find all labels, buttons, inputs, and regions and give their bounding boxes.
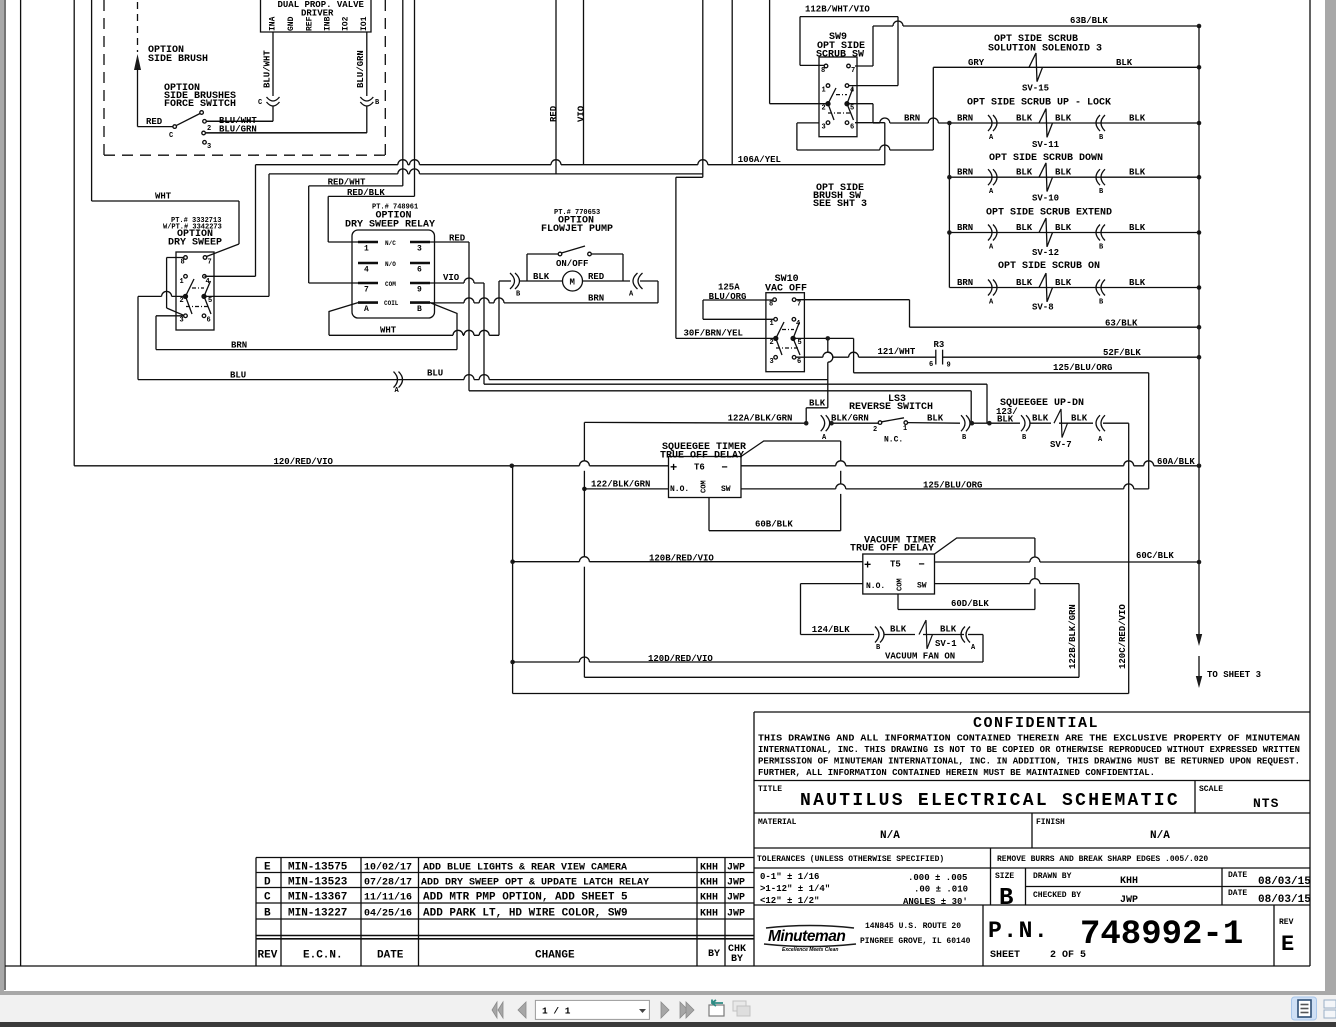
svg-text:BLK: BLK [1016,223,1033,233]
svg-text:B: B [876,644,881,652]
svg-text:SOLUTION SOLENOID 3: SOLUTION SOLENOID 3 [988,44,1102,55]
svg-text:COM: COM [897,578,905,591]
svg-text:BLU/GRN: BLU/GRN [219,125,257,135]
svg-text:FINISH: FINISH [1036,818,1065,827]
svg-text:NTS: NTS [1253,796,1279,811]
svg-text:SV-8: SV-8 [1032,303,1054,313]
svg-text:DRY SWEEP RELAY: DRY SWEEP RELAY [345,220,435,231]
svg-text:ADD BLUE LIGHTS & REAR VIEW CA: ADD BLUE LIGHTS & REAR VIEW CAMERA [423,863,627,874]
svg-text:120C/RED/VIO: 120C/RED/VIO [1118,604,1128,669]
svg-text:BLU/ORG: BLU/ORG [709,292,747,302]
svg-text:B: B [999,885,1013,912]
svg-text:B: B [1099,188,1104,196]
svg-text:5: 5 [798,339,802,347]
svg-text:WHT: WHT [155,192,172,202]
svg-text:OPT SIDE SCRUB DOWN: OPT SIDE SCRUB DOWN [989,153,1103,164]
svg-text:BLK: BLK [1055,223,1072,233]
svg-text:C: C [169,132,173,140]
svg-text:N/A: N/A [1150,830,1170,842]
svg-text:SV-15: SV-15 [1022,84,1049,94]
svg-text:BLK: BLK [1129,223,1146,233]
svg-text:30F/BRN/YEL: 30F/BRN/YEL [684,329,743,339]
svg-text:SEE SHT 3: SEE SHT 3 [813,199,867,210]
svg-text:ON/OFF: ON/OFF [556,259,588,269]
svg-text:<12" ± 1/2": <12" ± 1/2" [760,896,819,906]
svg-text:125A: 125A [718,283,740,293]
svg-text:PINGREE GROVE, IL 60140: PINGREE GROVE, IL 60140 [860,937,971,946]
svg-text:BLK: BLK [809,399,826,409]
svg-text:60B/BLK: 60B/BLK [755,520,793,530]
svg-text:A: A [971,644,976,652]
svg-text:RED: RED [449,234,466,244]
svg-text:122A/BLK/GRN: 122A/BLK/GRN [728,414,793,424]
svg-text:DATE: DATE [1228,889,1247,898]
svg-text:+: + [670,461,677,475]
svg-text:REVERSE SWITCH: REVERSE SWITCH [849,402,933,413]
svg-text:60D/BLK: 60D/BLK [951,599,989,609]
svg-text:B: B [962,434,967,442]
svg-text:ADD PARK LT, HD WIRE COLOR, SW: ADD PARK LT, HD WIRE COLOR, SW9 [423,908,628,920]
svg-text:C: C [258,99,262,107]
svg-text:SIZE: SIZE [995,872,1014,881]
svg-text:FORCE SWITCH: FORCE SWITCH [164,99,236,110]
svg-text:BLK: BLK [890,625,907,635]
svg-text:TOLERANCES (UNLESS OTHERWISE S: TOLERANCES (UNLESS OTHERWISE SPECIFIED) [757,855,944,864]
svg-text:B: B [1022,434,1027,442]
svg-text:BRN: BRN [957,223,973,233]
svg-text:TITLE: TITLE [758,785,782,794]
svg-text:GND: GND [287,16,296,31]
svg-text:REF: REF [306,16,315,31]
svg-text:ADD DRY SWEEP OPT & UPDATE LAT: ADD DRY SWEEP OPT & UPDATE LATCH RELAY [421,878,649,889]
svg-text:COM: COM [385,281,396,288]
svg-text:122B/BLK/GRN: 122B/BLK/GRN [1068,604,1078,669]
svg-text:6: 6 [929,361,933,369]
svg-text:BLK: BLK [1016,278,1033,288]
svg-text:52F/BLK: 52F/BLK [1103,348,1141,358]
svg-text:BRN: BRN [231,341,247,351]
svg-text:1: 1 [903,425,907,433]
svg-text:JWP: JWP [727,893,745,904]
svg-text:BLK: BLK [533,272,550,282]
svg-text:3: 3 [770,358,774,366]
svg-text:120B/RED/VIO: 120B/RED/VIO [649,554,714,564]
svg-text:63/BLK: 63/BLK [1105,319,1138,329]
svg-text:8: 8 [181,259,185,267]
svg-text:N/A: N/A [880,830,900,842]
svg-text:6: 6 [417,266,422,275]
svg-text:A: A [989,188,994,196]
svg-text:4: 4 [206,278,210,286]
svg-text:BLK: BLK [1016,114,1033,124]
svg-text:E.C.N.: E.C.N. [303,950,343,962]
svg-text:07/28/17: 07/28/17 [364,877,412,889]
svg-text:9: 9 [417,286,422,295]
svg-text:D: D [264,877,271,889]
svg-text:A: A [989,134,994,142]
svg-text:WHT: WHT [380,326,397,336]
svg-text:KHH: KHH [1120,876,1138,887]
svg-text:125/BLU/ORG: 125/BLU/ORG [1053,363,1112,373]
svg-text:E: E [1281,932,1294,957]
svg-text:P.N.: P.N. [988,918,1049,944]
svg-text:7: 7 [851,67,855,75]
svg-text:SIDE BRUSH: SIDE BRUSH [148,54,208,65]
svg-text:BLU: BLU [230,371,246,381]
svg-text:SW: SW [917,582,927,591]
svg-text:OPT SIDE SCRUB ON: OPT SIDE SCRUB ON [998,261,1100,272]
svg-text:DRY SWEEP: DRY SWEEP [168,238,222,249]
svg-text:SV-7: SV-7 [1050,440,1072,450]
svg-text:1: 1 [364,245,369,254]
svg-text:B: B [1099,134,1104,142]
svg-text:KHH: KHH [700,878,718,889]
svg-text:2 OF 5: 2 OF 5 [1050,950,1086,961]
svg-text:SHEET: SHEET [990,950,1020,961]
svg-text:T5: T5 [890,560,901,570]
svg-text:BLK: BLK [940,625,957,635]
svg-text:SV-11: SV-11 [1032,140,1060,150]
svg-text:SV-10: SV-10 [1032,194,1059,204]
svg-text:2: 2 [770,339,774,347]
svg-text:INA: INA [269,16,278,31]
svg-text:SV-12: SV-12 [1032,248,1059,258]
svg-text:REV: REV [258,950,278,962]
svg-text:1: 1 [770,320,774,328]
svg-text:TRUE OFF DELAY: TRUE OFF DELAY [850,544,934,555]
svg-text:1: 1 [180,278,184,286]
svg-text:BRN: BRN [957,278,973,288]
svg-text:N.O.: N.O. [670,485,689,494]
svg-text:SQUEEGEE UP-DN: SQUEEGEE UP-DN [1000,398,1084,409]
svg-text:112B/WHT/VIO: 112B/WHT/VIO [805,5,870,15]
svg-text:BLK: BLK [1032,414,1049,424]
svg-text:14N845 U.S. ROUTE 20: 14N845 U.S. ROUTE 20 [865,922,961,931]
svg-text:C: C [264,892,271,904]
svg-text:Minuteman: Minuteman [768,928,845,945]
svg-text:MIN-13367: MIN-13367 [288,892,347,904]
svg-text:9: 9 [947,362,951,370]
svg-text:BLK: BLK [1055,278,1072,288]
svg-text:DRAWN BY: DRAWN BY [1033,872,1072,881]
svg-text:ANGLES ± 30': ANGLES ± 30' [903,897,968,907]
svg-text:120/RED/VIO: 120/RED/VIO [274,457,334,467]
svg-text:E: E [264,862,271,874]
svg-text:MIN-13227: MIN-13227 [288,908,347,920]
svg-text:CHANGE: CHANGE [535,950,575,962]
svg-text:3: 3 [417,245,422,254]
svg-text:M: M [570,278,575,288]
svg-text:2: 2 [207,125,211,133]
svg-text:3: 3 [180,317,184,325]
svg-text:B: B [417,305,422,314]
svg-text:CONFIDENTIAL: CONFIDENTIAL [973,715,1099,732]
svg-text:KHH: KHH [700,893,718,904]
svg-text:MATERIAL: MATERIAL [758,818,797,827]
svg-text:A: A [395,387,400,395]
svg-text:B: B [1099,244,1104,252]
svg-text:TO SHEET 3: TO SHEET 3 [1207,670,1261,680]
svg-text:T6: T6 [694,463,705,473]
svg-text:120D/RED/VIO: 120D/RED/VIO [648,654,713,664]
svg-text:REV: REV [1279,918,1294,927]
svg-text:A: A [989,244,994,252]
svg-text:BLK: BLK [1129,114,1146,124]
svg-text:4: 4 [796,320,800,328]
svg-text:BLK: BLK [1129,278,1146,288]
svg-text:–: – [918,557,925,571]
svg-text:BLK/GRN: BLK/GRN [831,414,869,424]
svg-text:BRN: BRN [904,114,920,124]
svg-text:.00 ± .010: .00 ± .010 [914,885,968,895]
svg-text:BLK: BLK [1129,168,1146,178]
svg-text:6: 6 [207,317,211,325]
svg-text:BY: BY [731,954,743,965]
svg-text:121/WHT: 121/WHT [878,347,916,357]
svg-text:INB: INB [324,16,333,31]
svg-text:125/BLU/ORG: 125/BLU/ORG [923,481,982,491]
svg-text:JWP: JWP [1120,895,1138,906]
svg-text:A: A [364,305,369,314]
svg-text:ADD MTR PMP OPTION, ADD SHEET: ADD MTR PMP OPTION, ADD SHEET 5 [423,892,628,904]
svg-text:IO1: IO1 [360,16,369,31]
svg-text:RED/BLK: RED/BLK [347,188,385,198]
svg-text:OPT SIDE SCRUB UP - LOCK: OPT SIDE SCRUB UP - LOCK [967,98,1111,109]
svg-text:VIO: VIO [443,273,460,283]
svg-text:BLU: BLU [427,369,443,379]
svg-text:SCALE: SCALE [1199,785,1223,794]
svg-text:5: 5 [208,297,212,305]
svg-text:2: 2 [822,105,826,113]
svg-text:KHH: KHH [700,909,718,920]
svg-text:IO2: IO2 [342,16,351,31]
svg-text:DATE: DATE [1228,871,1247,880]
svg-text:JWP: JWP [727,878,745,889]
svg-text:BLK: BLK [1016,168,1033,178]
svg-text:BRN: BRN [588,294,604,304]
svg-text:.000 ± .005: .000 ± .005 [908,873,967,883]
svg-text:FLOWJET PUMP: FLOWJET PUMP [541,224,613,235]
svg-text:8: 8 [821,67,825,75]
svg-text:GRY: GRY [968,58,985,68]
svg-text:11/11/16: 11/11/16 [364,892,412,904]
svg-text:MIN-13523: MIN-13523 [288,877,348,889]
svg-text:THIS DRAWING AND ALL INFORMATI: THIS DRAWING AND ALL INFORMATION CONTAIN… [758,734,1300,744]
svg-text:N.C.: N.C. [884,436,903,445]
svg-text:>1-12" ± 1/4": >1-12" ± 1/4" [760,884,830,894]
svg-text:5: 5 [850,105,854,113]
svg-text:VACUUM FAN ON: VACUUM FAN ON [885,652,955,662]
svg-text:B: B [264,908,271,920]
svg-text:RED: RED [549,105,559,122]
svg-text:BLK: BLK [1055,114,1072,124]
svg-text:BLK: BLK [1116,58,1133,68]
svg-text:NAUTILUS ELECTRICAL SCHEMATIC: NAUTILUS ELECTRICAL SCHEMATIC [800,791,1180,811]
svg-text:A: A [629,291,634,299]
svg-text:A: A [1098,436,1103,444]
svg-text:4: 4 [364,266,369,275]
svg-text:R3: R3 [934,340,945,350]
svg-text:A: A [989,299,994,307]
svg-text:60A/BLK: 60A/BLK [1157,457,1195,467]
svg-text:BLK: BLK [1055,168,1072,178]
svg-text:08/03/15: 08/03/15 [1258,876,1311,888]
svg-text:8: 8 [769,301,773,309]
svg-text:RED: RED [588,272,605,282]
svg-text:COM: COM [701,480,709,493]
svg-text:04/25/16: 04/25/16 [364,908,412,920]
svg-text:0-1" ± 1/16: 0-1" ± 1/16 [760,872,819,882]
svg-text:SW: SW [721,485,731,494]
svg-text:N.O.: N.O. [866,582,885,591]
svg-text:N/O: N/O [385,261,396,268]
svg-text:3: 3 [207,143,211,151]
svg-text:122/BLK/GRN: 122/BLK/GRN [591,480,650,490]
svg-text:VAC OFF: VAC OFF [765,284,807,295]
svg-text:BLU/GRN: BLU/GRN [356,50,366,88]
svg-text:2: 2 [873,426,877,434]
svg-text:MIN-13575: MIN-13575 [288,862,348,874]
svg-text:JWP: JWP [727,863,745,874]
svg-text:JWP: JWP [727,909,745,920]
svg-text:DATE: DATE [377,950,404,962]
svg-text:B: B [375,99,380,107]
svg-text:N/C: N/C [385,240,396,247]
svg-text:+: + [864,559,871,573]
svg-text:4: 4 [850,87,854,95]
svg-text:B: B [516,291,521,299]
svg-text:SV-1: SV-1 [935,639,957,649]
svg-text:BRN: BRN [957,114,973,124]
svg-text:2: 2 [180,297,184,305]
svg-text:BLK: BLK [997,415,1014,425]
svg-text:7: 7 [364,286,369,295]
svg-text:60C/BLK: 60C/BLK [1136,551,1174,561]
svg-text:BRN: BRN [957,168,973,178]
svg-text:BY: BY [708,949,720,960]
svg-text:OPT SIDE SCRUB EXTEND: OPT SIDE SCRUB EXTEND [986,208,1112,219]
svg-text:6: 6 [797,358,801,366]
svg-text:KHH: KHH [700,863,718,874]
svg-text:1: 1 [822,87,826,95]
svg-text:124/BLK: 124/BLK [812,625,850,635]
svg-text:08/03/15: 08/03/15 [1258,894,1311,906]
svg-text:–: – [721,460,728,474]
svg-text:SCRUB SW: SCRUB SW [816,50,864,61]
svg-text:RED/WHT: RED/WHT [328,178,366,188]
svg-text:7: 7 [208,259,212,267]
svg-text:106A/YEL: 106A/YEL [738,155,781,165]
svg-text:INTERNATIONAL, INC. THIS DRAWI: INTERNATIONAL, INC. THIS DRAWING IS NOT … [758,745,1300,755]
svg-text:PERMISSION OF MINUTEMAN INTERN: PERMISSION OF MINUTEMAN INTERNATIONAL, I… [758,757,1300,767]
svg-text:BLK: BLK [927,414,944,424]
svg-text:RED: RED [146,117,163,127]
svg-text:B: B [1099,299,1104,307]
svg-text:BLK: BLK [1071,414,1088,424]
svg-text:VIO: VIO [577,105,587,122]
svg-text:FURTHER, ALL INFORMATION CONTA: FURTHER, ALL INFORMATION CONTAINED HEREI… [758,768,1155,778]
svg-text:748992-1: 748992-1 [1080,916,1243,954]
svg-text:CHECKED BY: CHECKED BY [1033,891,1081,900]
svg-text:Excellence Meets Clean: Excellence Meets Clean [782,947,838,953]
svg-text:COIL: COIL [384,300,399,307]
svg-text:3: 3 [822,124,826,132]
svg-text:10/02/17: 10/02/17 [364,862,412,874]
svg-text:1 / 1: 1 / 1 [542,1006,571,1017]
svg-text:7: 7 [797,301,801,309]
svg-text:6: 6 [850,124,854,132]
svg-text:BLU/WHT: BLU/WHT [263,50,273,88]
svg-text:TRUE OFF DELAY: TRUE OFF DELAY [660,451,744,462]
svg-text:63B/BLK: 63B/BLK [1070,16,1108,26]
svg-text:REMOVE BURRS AND BREAK SHARP E: REMOVE BURRS AND BREAK SHARP EDGES .005/… [997,855,1208,864]
